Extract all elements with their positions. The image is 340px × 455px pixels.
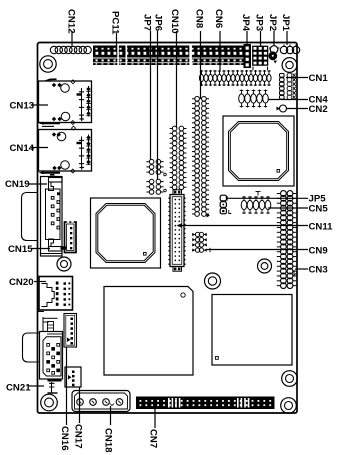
svg-text:CN1: CN1	[309, 73, 329, 84]
header beside D-sub	[61, 221, 77, 253]
marks above CN13	[45, 79, 57, 82]
svg-text:CN3: CN3	[309, 265, 328, 276]
leader line CN6	[219, 31, 221, 70]
connector CN18 (power)	[72, 391, 130, 412]
leader line JP6	[157, 31, 159, 180]
svg-text:CN20: CN20	[9, 277, 34, 288]
leader line CN1	[286, 77, 308, 79]
mounting hole bottom-left	[41, 394, 58, 411]
leader line CN17	[79, 387, 81, 423]
jumper JP1	[280, 45, 299, 54]
leader line JP2	[273, 31, 275, 46]
connector CN21 bracket	[48, 381, 62, 394]
jumper JP3	[253, 46, 268, 70]
svg-text:JP6: JP6	[153, 14, 164, 31]
jumper JP7	[146, 159, 166, 175]
leader line JP4	[246, 31, 248, 44]
mounting hole top-right	[282, 58, 297, 73]
svg-text:CN18: CN18	[103, 428, 114, 453]
connector CN4 (magnetics)	[239, 90, 269, 108]
connector CN5 (magnetics)	[241, 196, 271, 214]
connector CN2	[277, 105, 287, 112]
connector CN13 (RJ45)	[39, 80, 92, 125]
mounting hole center	[205, 273, 221, 289]
connector CN3 pin column (right edge)	[277, 191, 298, 289]
connector CN15 tab	[41, 239, 63, 254]
svg-text:JP4: JP4	[240, 14, 251, 32]
leader line CN19	[28, 183, 47, 185]
leader line JP5	[227, 197, 308, 199]
leader line CN11	[178, 225, 308, 227]
connector CN1	[280, 73, 296, 100]
leader line CN3	[295, 268, 308, 270]
connector CN7	[136, 397, 275, 410]
jumper JP2	[269, 46, 280, 64]
leader line CN5	[268, 207, 308, 209]
leader line CN8	[200, 31, 202, 99]
header above CN21 D-sub	[43, 317, 62, 334]
connector CN16	[64, 314, 77, 348]
mounting hole bottom-right upper	[282, 371, 298, 387]
leader line CN21	[28, 385, 44, 387]
leader line CN16	[66, 347, 68, 425]
connector CN14 (RJ45)	[39, 126, 92, 173]
svg-text:PC11: PC11	[110, 11, 121, 35]
leader line JP3	[260, 31, 262, 46]
jumper JP5 pads	[220, 195, 231, 214]
leader line CN9	[207, 249, 308, 251]
connector CN20 (PS/2)	[39, 277, 73, 311]
connector PC11 (PC/104 header)	[93, 46, 247, 66]
svg-text:CN19: CN19	[5, 179, 30, 190]
jumper JP5 pin mark	[256, 192, 261, 196]
leader line JP1	[286, 31, 288, 45]
chip U2 (QFP)	[91, 198, 161, 268]
leader line CN10	[176, 31, 178, 128]
connector CN19 tab	[49, 175, 63, 191]
mounting hole right-middle	[258, 259, 272, 273]
connector CN19/CN15 D-sub shell bulge	[22, 193, 39, 241]
connector CN11	[168, 190, 186, 271]
svg-text:CN13: CN13	[10, 100, 35, 111]
leader line JP7	[150, 31, 152, 160]
mounting hole bottom-right lower	[281, 398, 297, 414]
leader line CN2	[287, 108, 309, 110]
leader line CN13	[31, 104, 48, 106]
jumper JP4	[244, 44, 252, 68]
leader line CN4	[268, 99, 308, 101]
svg-text:JP3: JP3	[254, 14, 265, 31]
D-sub pins	[51, 192, 60, 229]
connector CN21 D-sub shell bulge	[23, 333, 41, 362]
connector CN6	[199, 70, 271, 86]
connector CN12	[50, 46, 91, 53]
svg-text:JP7: JP7	[142, 14, 153, 31]
svg-text:CN6: CN6	[213, 9, 224, 28]
leader line PC11	[116, 33, 118, 46]
svg-text:CN9: CN9	[309, 246, 328, 257]
svg-text:CN21: CN21	[6, 382, 31, 393]
svg-text:CN7: CN7	[148, 429, 159, 448]
connector CN9 pads	[192, 232, 210, 252]
jumper JP6	[146, 179, 166, 194]
svg-text:CN10: CN10	[169, 9, 180, 34]
svg-text:CN14: CN14	[10, 143, 35, 154]
mounting hole top-left	[40, 56, 56, 72]
leader line CN7	[154, 409, 156, 428]
svg-text:CN12: CN12	[66, 9, 77, 34]
svg-text:CN17: CN17	[73, 424, 84, 449]
svg-text:JP1: JP1	[280, 14, 291, 32]
svg-text:CN16: CN16	[59, 426, 70, 451]
leader line CN18	[110, 406, 112, 425]
svg-text:JP2: JP2	[267, 14, 278, 31]
svg-text:CN2: CN2	[309, 104, 328, 115]
connector CN21 D-sub body	[40, 332, 63, 380]
svg-text:CN11: CN11	[309, 222, 334, 233]
connector D-sub body	[41, 177, 63, 257]
leader line CN12	[71, 31, 73, 46]
board outline	[38, 43, 298, 414]
chip U4	[212, 295, 292, 366]
wire tick below CN20	[38, 311, 45, 313]
svg-text:CN5: CN5	[309, 204, 329, 215]
leader line CN15	[31, 248, 50, 250]
marks between CN13 and CN14	[39, 122, 61, 127]
chip U1 (QFP)	[223, 116, 294, 186]
leader line CN20	[34, 281, 46, 283]
leader line CN14	[31, 147, 48, 149]
mounting hole left-middle	[57, 257, 71, 271]
connector CN10	[170, 126, 187, 189]
chip U3	[104, 287, 193, 376]
connector CN17	[65, 367, 81, 387]
svg-text:CN15: CN15	[8, 244, 33, 255]
connector CN8	[192, 96, 209, 216]
svg-text:CN8: CN8	[194, 9, 205, 29]
